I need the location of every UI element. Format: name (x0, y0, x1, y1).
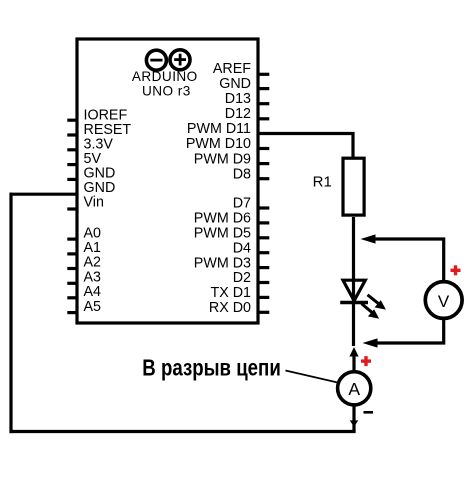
pin RX D0 (209, 300, 269, 316)
svg-text:D2: D2 (233, 270, 251, 286)
svg-text:TX D1: TX D1 (210, 285, 251, 301)
LED light arrow 1 (368, 295, 386, 310)
ammeter top lead arrowhead (points up to break) (349, 347, 358, 357)
pin A4 (67, 284, 101, 300)
svg-text:AREF: AREF (213, 61, 251, 77)
svg-text:A1: A1 (84, 240, 102, 256)
callout line from label to ammeter (286, 371, 338, 383)
pin 5V (67, 151, 101, 167)
pin A0 (67, 225, 101, 241)
svg-text:A: A (348, 379, 360, 399)
pin PWM D10 (186, 136, 269, 152)
voltmeter top probe arrowhead (361, 234, 376, 243)
pin GND (second) (84, 180, 116, 196)
svg-text:D7: D7 (233, 196, 251, 212)
svg-text:V: V (438, 292, 450, 311)
svg-text:PWM D3: PWM D3 (194, 255, 251, 271)
pin A5 (67, 299, 101, 315)
pin IOREF (67, 107, 127, 123)
voltmeter bottom probe arrowhead (363, 338, 378, 347)
pin D8 (233, 166, 270, 182)
wire D11 to R1 (258, 134, 353, 161)
ammeter A (338, 372, 371, 405)
pin PWM D9 (194, 151, 270, 167)
svg-text:RESET: RESET (84, 122, 132, 138)
svg-text:PWM D9: PWM D9 (194, 151, 251, 167)
left rail wire (9, 193, 12, 434)
Arduino UNO r3 board outline (77, 39, 258, 323)
svg-text:PWM D11: PWM D11 (187, 121, 251, 137)
svg-text:PWM D6: PWM D6 (194, 211, 251, 227)
svg-text:GND: GND (219, 76, 251, 92)
wire R1 to LED (352, 217, 355, 302)
svg-text:UNO r3: UNO r3 (142, 83, 191, 98)
Arduino logo minus circle (146, 50, 166, 70)
pin GND (digital side) (219, 76, 269, 92)
pin D2 (233, 270, 270, 286)
pin D12 (225, 106, 270, 122)
pin Vin (67, 195, 104, 211)
pin D7 (233, 196, 270, 212)
right pins (186, 61, 269, 316)
node: break point between LED and ammeter (wire LED to break) (352, 302, 355, 346)
svg-text:D8: D8 (233, 166, 251, 182)
svg-text:A3: A3 (84, 269, 102, 285)
svg-text:RX D0: RX D0 (209, 300, 251, 316)
svg-text:ARDUINO: ARDUINO (132, 69, 198, 84)
svg-text:D12: D12 (225, 106, 251, 122)
svg-text:A2: A2 (84, 255, 102, 271)
bottom rail wire (10, 430, 356, 433)
pin A1 (67, 240, 101, 256)
pin 3.3V (67, 137, 113, 153)
LED cathode bar (340, 301, 368, 304)
svg-text:D13: D13 (225, 91, 251, 107)
wire GND to left rail (10, 193, 78, 196)
pin A3 (67, 269, 101, 285)
svg-text:D4: D4 (233, 240, 251, 256)
pin A2 (67, 255, 101, 271)
pin RESET (67, 122, 131, 138)
Arduino logo plus circle (170, 50, 190, 70)
pin D4 (233, 240, 270, 256)
ammeter bottom lead (352, 406, 355, 432)
red plus annotation at voltmeter (451, 265, 461, 275)
pin D13 (225, 91, 270, 107)
red plus annotation at ammeter (361, 356, 371, 366)
pin PWM D6 (194, 211, 270, 227)
LED light arrow 2 (362, 304, 380, 319)
svg-text:A5: A5 (84, 299, 102, 315)
pin PWM D3 (194, 255, 270, 271)
svg-text:В разрыв цепи: В разрыв цепи (142, 354, 280, 380)
voltmeter V (425, 282, 462, 319)
resistor R1 (343, 158, 364, 215)
pin GND (first) (67, 166, 115, 182)
voltmeter bottom probe wire (377, 318, 444, 343)
ammeter top lead (352, 354, 355, 371)
left pins (67, 107, 131, 314)
svg-text:A4: A4 (84, 284, 102, 300)
pin TX D1 (210, 285, 269, 301)
minus annotation at ammeter (364, 411, 374, 414)
pin AREF (213, 61, 269, 77)
svg-text:Vin: Vin (84, 195, 104, 211)
LED triangle (anode) (343, 280, 365, 301)
svg-text:GND: GND (84, 180, 116, 196)
svg-text:R1: R1 (313, 174, 332, 191)
voltmeter top probe wire (375, 239, 444, 282)
svg-text:PWM D5: PWM D5 (194, 226, 251, 242)
pin PWM D11 (187, 121, 251, 137)
svg-text:A0: A0 (84, 225, 102, 241)
svg-text:5V: 5V (84, 151, 102, 167)
svg-text:PWM D10: PWM D10 (186, 136, 251, 152)
ammeter bottom lead arrowhead (points down to break) (350, 420, 358, 427)
pin PWM D5 (194, 226, 270, 242)
